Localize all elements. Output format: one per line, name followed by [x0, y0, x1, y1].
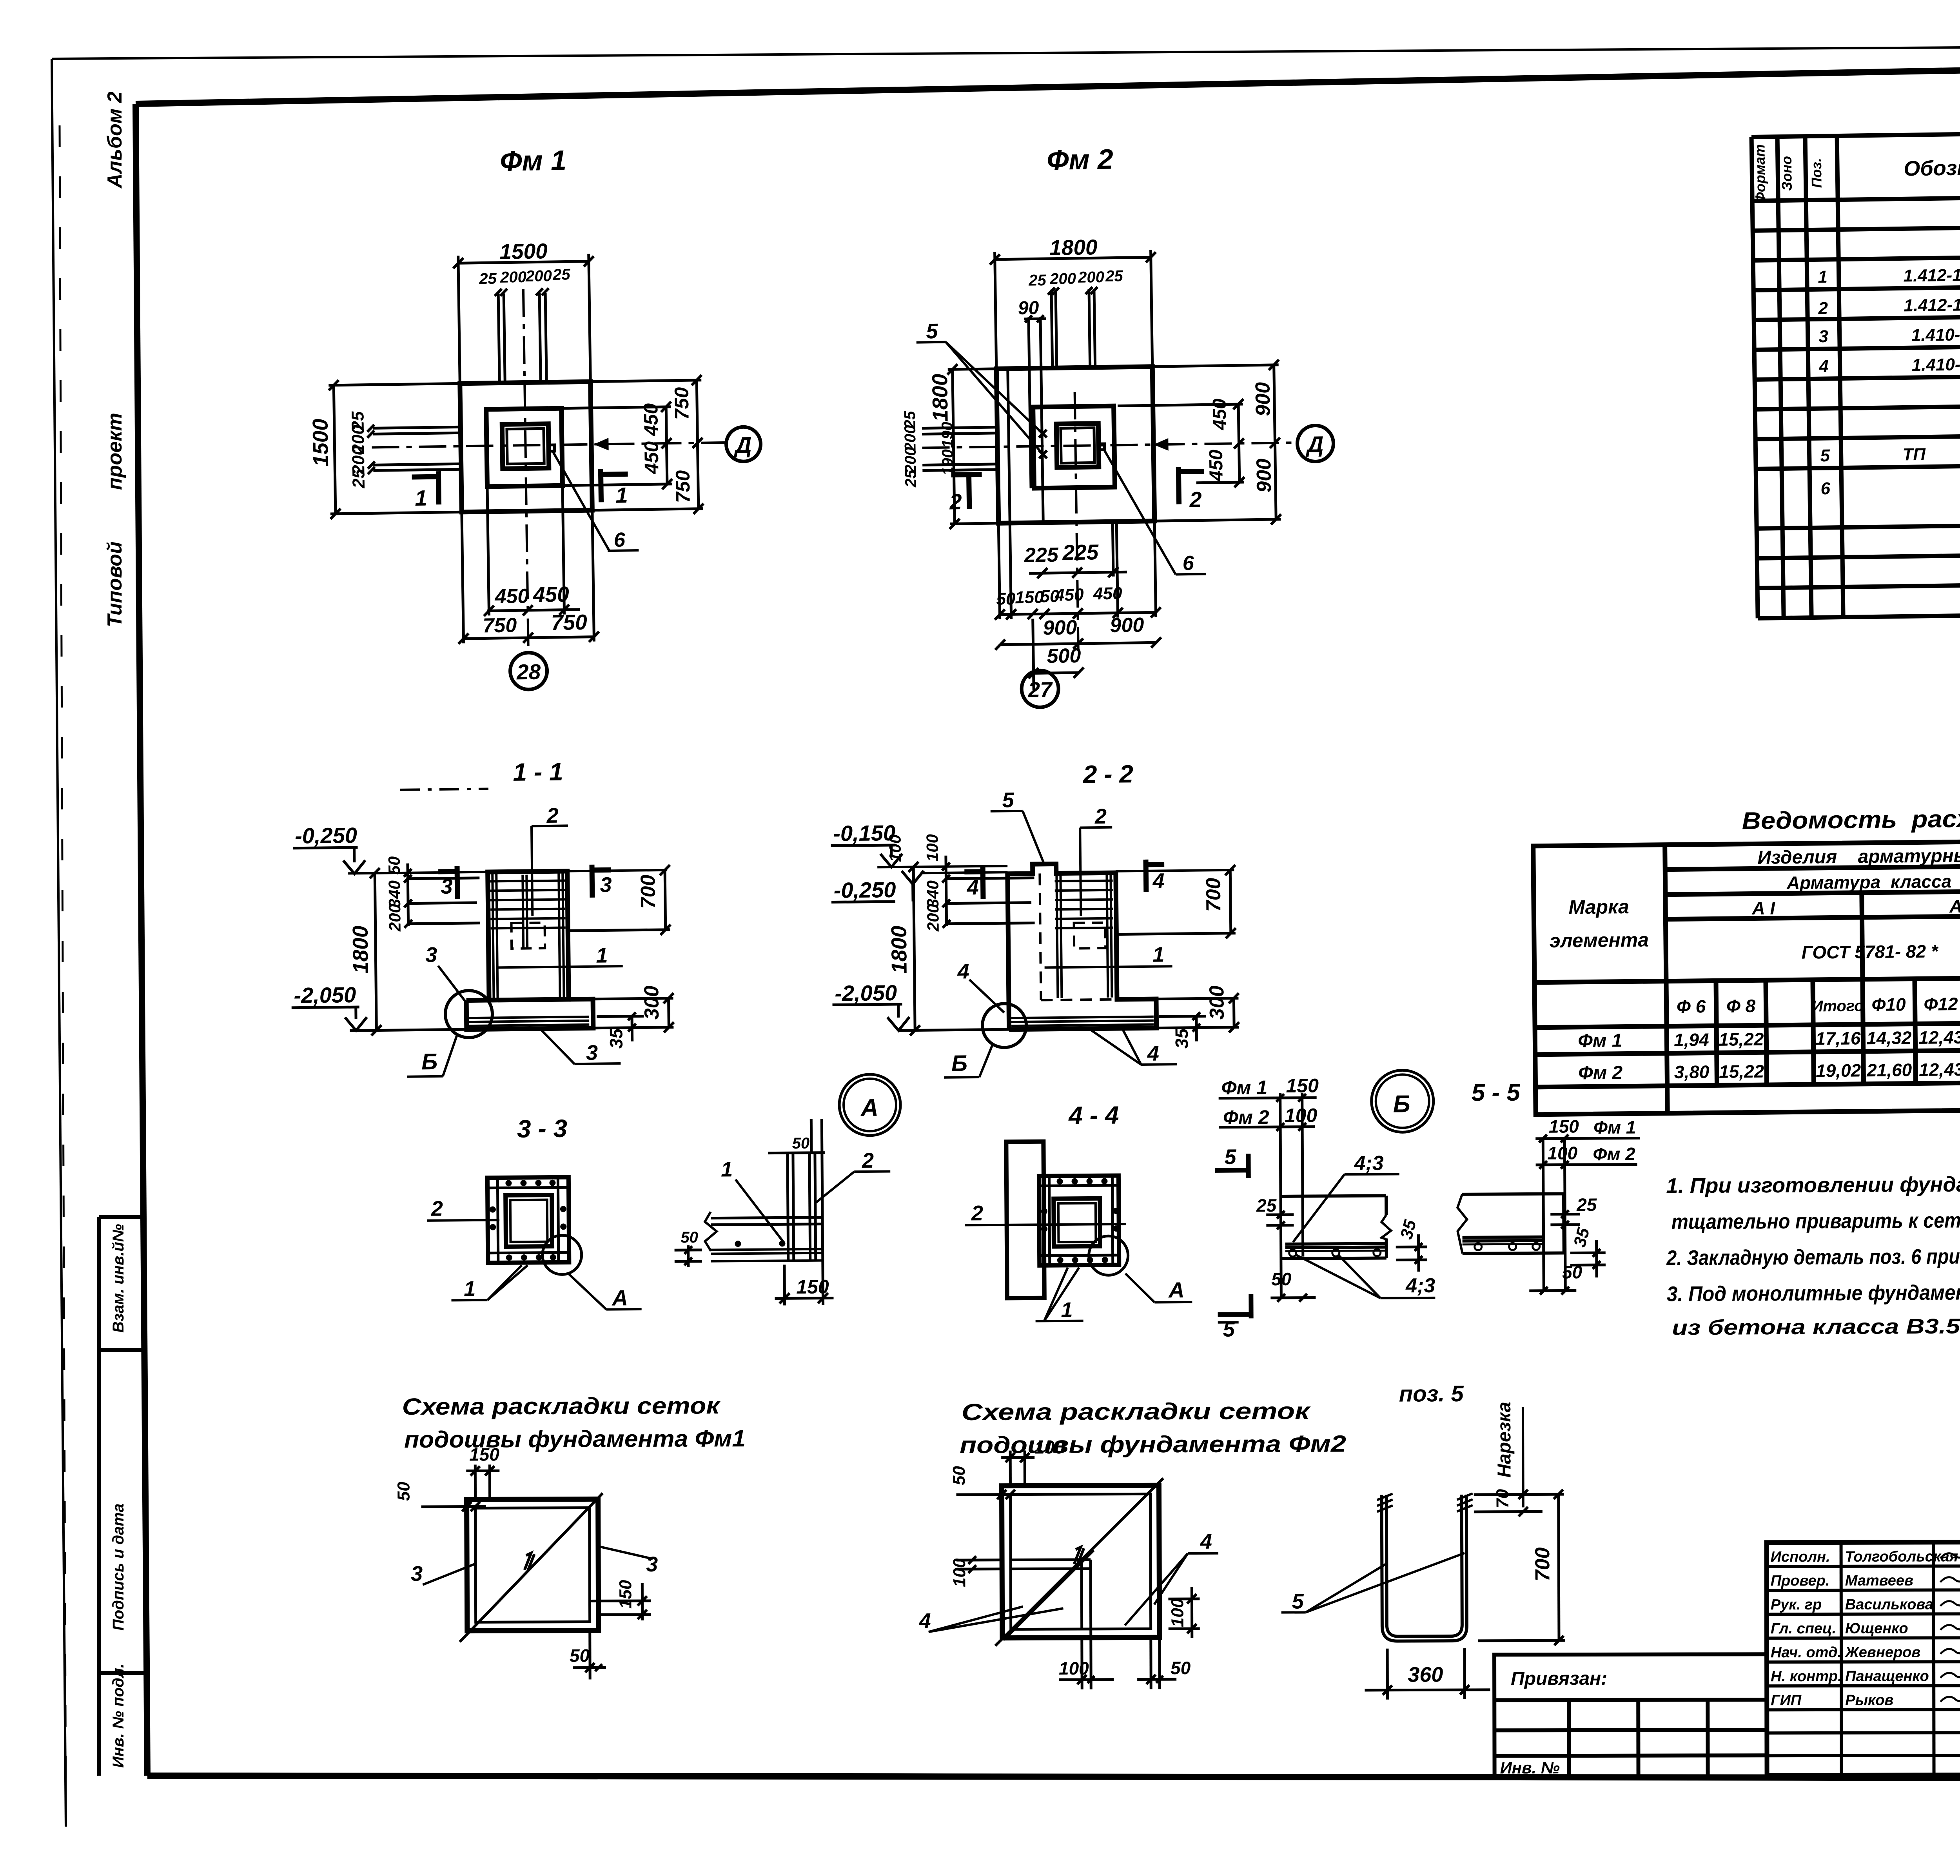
svg-text:Фм 1: Фм 1 [500, 145, 567, 177]
detail A (corner) [673, 1074, 902, 1306]
svg-text:1: 1 [596, 943, 608, 967]
svg-text:Типовой: Типовой [103, 541, 126, 627]
svg-text:6: 6 [1820, 479, 1831, 498]
vedomost title [1533, 800, 1960, 1115]
svg-text:750: 750 [670, 387, 693, 420]
svg-text:-0,250: -0,250 [833, 877, 896, 903]
specification table [1751, 127, 1960, 781]
svg-text:3: 3 [441, 875, 453, 898]
svg-text:4;3: 4;3 [1354, 1152, 1384, 1175]
svg-text:Взам. инв.й№: Взам. инв.й№ [110, 1224, 127, 1333]
notes text [1666, 1170, 1960, 1340]
svg-text:100: 100 [1547, 1143, 1577, 1163]
svg-text:А: А [1168, 1277, 1185, 1302]
svg-text:27: 27 [1027, 677, 1053, 702]
Fm1 plan view [304, 142, 764, 693]
svg-text:5 - 5: 5 - 5 [1471, 1079, 1521, 1107]
section 2-2 [830, 759, 1240, 1132]
svg-text:25: 25 [1028, 272, 1047, 289]
svg-text:Привязан:: Привязан: [1511, 1668, 1607, 1689]
schema Fm1 [394, 1392, 747, 1680]
svg-text:2 - 2: 2 - 2 [1083, 760, 1134, 788]
svg-text:Фм 1: Фм 1 [1593, 1117, 1636, 1138]
svg-text:225: 225 [1024, 544, 1059, 567]
svg-text:Панащенко: Панащенко [1845, 1668, 1929, 1684]
svg-text:1: 1 [415, 486, 427, 510]
svg-text:150: 150 [796, 1276, 829, 1298]
svg-text:150: 150 [1549, 1116, 1579, 1136]
svg-text:4: 4 [919, 1609, 931, 1633]
svg-text:50: 50 [681, 1229, 698, 1246]
svg-text:Б: Б [1393, 1090, 1410, 1118]
svg-text:100: 100 [1059, 1658, 1089, 1678]
svg-text:12,43: 12,43 [1918, 1027, 1960, 1048]
svg-text:1800: 1800 [927, 374, 953, 422]
svg-text:450: 450 [1209, 398, 1230, 430]
svg-text:Ф12: Ф12 [1924, 994, 1958, 1014]
svg-text:50: 50 [1171, 1658, 1191, 1678]
svg-text:100: 100 [950, 1558, 969, 1587]
svg-text:Инв. №: Инв. № [1500, 1758, 1560, 1777]
svg-text:из бетона класса В3.5: из бетона класса В3.5 [1672, 1315, 1960, 1340]
svg-text:28: 28 [516, 660, 541, 684]
title block [1494, 1512, 1960, 1809]
svg-text:900: 900 [1251, 382, 1274, 416]
poz.5 U-bar [1281, 1381, 1566, 1700]
svg-text:Фм 2: Фм 2 [1223, 1106, 1269, 1129]
svg-text:15,22: 15,22 [1719, 1029, 1764, 1050]
svg-text:Ф10: Ф10 [1871, 994, 1906, 1015]
svg-text:3: 3 [411, 1562, 423, 1586]
svg-text:1. При изготовлении фундаменто: 1. При изготовлении фундаментов простран… [1666, 1170, 1960, 1198]
svg-text:Василькова: Василькова [1845, 1596, 1933, 1613]
svg-text:1: 1 [721, 1158, 733, 1181]
svg-text:25: 25 [1256, 1195, 1277, 1216]
svg-text:1.412-1/77, вып.3: 1.412-1/77, вып.3 [1903, 265, 1960, 286]
svg-text:ГОСТ 5781- 82 *: ГОСТ 5781- 82 * [1802, 941, 1939, 962]
svg-text:1.410-2 вып.1: 1.410-2 вып.1 [1911, 354, 1960, 375]
svg-text:25: 25 [1576, 1194, 1597, 1215]
svg-text:2: 2 [949, 489, 962, 514]
svg-text:21,60: 21,60 [1866, 1060, 1912, 1080]
svg-text:3: 3 [1818, 327, 1828, 346]
svg-text:200: 200 [924, 904, 942, 932]
svg-text:35: 35 [1397, 1217, 1420, 1241]
svg-text:Обозначение: Обозначение [1904, 155, 1960, 181]
svg-text:200: 200 [500, 269, 526, 286]
svg-text:Фм 2: Фм 2 [1593, 1144, 1635, 1165]
svg-text:150: 150 [616, 1580, 635, 1609]
svg-text:6: 6 [613, 528, 626, 551]
svg-text:700: 700 [1202, 878, 1225, 912]
svg-text:Подпись и дата: Подпись и дата [110, 1504, 127, 1631]
svg-text:Зоно: Зоно [1779, 156, 1795, 191]
svg-text:300: 300 [1205, 985, 1229, 1020]
svg-text:2: 2 [1818, 299, 1828, 318]
svg-text:Ющенко: Ющенко [1845, 1620, 1908, 1637]
svg-text:4: 4 [1152, 869, 1165, 893]
svg-text:1,94: 1,94 [1674, 1029, 1709, 1050]
svg-text:190: 190 [939, 422, 956, 448]
svg-text:элемента: элемента [1550, 929, 1649, 952]
svg-text:50: 50 [385, 856, 403, 874]
svg-text:ТП: ТП [1902, 445, 1926, 464]
svg-text:4: 4 [1147, 1042, 1159, 1065]
svg-text:700: 700 [1531, 1547, 1554, 1581]
svg-text:4: 4 [1200, 1530, 1212, 1553]
svg-text:Инв. № подл.: Инв. № подл. [110, 1664, 127, 1768]
vedomost table [1533, 836, 1960, 1115]
svg-text:450: 450 [640, 441, 662, 474]
svg-text:А I: А I [1751, 898, 1775, 918]
svg-text:1800: 1800 [1049, 235, 1098, 260]
svg-text:25: 25 [1105, 267, 1123, 285]
svg-text:12,43: 12,43 [1919, 1059, 1960, 1080]
svg-text:Провер.: Провер. [1771, 1573, 1830, 1589]
svg-text:А Ш: А Ш [1949, 896, 1960, 916]
svg-text:2. Закладную деталь поз. 6 при: 2. Закладную деталь поз. 6 приварить к а… [1666, 1243, 1960, 1270]
schema Fm2 [918, 1398, 1347, 1690]
svg-text:Нач. отд.: Нач. отд. [1771, 1644, 1842, 1661]
section 3-3 drawing [426, 1177, 641, 1312]
svg-text:750: 750 [551, 610, 588, 635]
svg-text:Матвеев: Матвеев [1845, 1573, 1913, 1589]
svg-text:5: 5 [1292, 1589, 1304, 1613]
svg-text:1: 1 [1061, 1298, 1073, 1322]
svg-text:35: 35 [1570, 1226, 1593, 1249]
svg-text:200: 200 [385, 904, 404, 932]
svg-text:3. Под монолитные фундаменты Ф: 3. Под монолитные фундаменты Фм1, Фм2 вы… [1667, 1278, 1960, 1306]
svg-text:1500: 1500 [499, 239, 548, 264]
svg-text:Д: Д [733, 432, 752, 458]
svg-text:Фм 2: Фм 2 [1578, 1062, 1623, 1083]
svg-text:Поз.: Поз. [1808, 158, 1825, 188]
svg-text:500: 500 [1047, 644, 1081, 668]
svg-text:2: 2 [971, 1201, 983, 1225]
svg-text:3,80: 3,80 [1674, 1061, 1710, 1082]
svg-text:2: 2 [431, 1197, 443, 1221]
svg-text:Итого: Итого [1811, 997, 1864, 1015]
svg-text:Ведомость расхода стали на эл: Ведомость расхода стали на элемент, кг [1742, 802, 1960, 835]
svg-text:А: А [860, 1094, 878, 1121]
svg-text:50: 50 [570, 1645, 590, 1666]
svg-text:50: 50 [792, 1135, 810, 1152]
svg-text:Изделия арматурные: Изделия арматурные [1757, 845, 1960, 868]
section 4-4 drawing [965, 1141, 1192, 1323]
svg-text:подошвы фундамента Фм1: подошвы фундамента Фм1 [404, 1425, 746, 1453]
svg-text:1 - 1: 1 - 1 [513, 758, 563, 786]
svg-text:Нарезка: Нарезка [1494, 1402, 1515, 1478]
svg-text:3: 3 [586, 1041, 598, 1065]
svg-text:Жевнеров: Жевнеров [1844, 1644, 1920, 1661]
Fm2 plan view [898, 141, 1337, 709]
left bottom stamp cells [99, 1217, 145, 1776]
svg-text:-0,250: -0,250 [295, 823, 357, 848]
svg-text:Исполн.: Исполн. [1771, 1549, 1830, 1565]
svg-text:2: 2 [546, 804, 559, 827]
svg-text:200: 200 [1078, 269, 1104, 286]
svg-text:Н. контр.: Н. контр. [1771, 1668, 1842, 1685]
svg-text:Б: Б [951, 1050, 968, 1076]
svg-text:25: 25 [479, 270, 497, 288]
svg-text:340: 340 [924, 880, 942, 908]
svg-text:поз. 5: поз. 5 [1399, 1381, 1464, 1407]
svg-text:1800: 1800 [887, 925, 911, 974]
svg-text:1: 1 [615, 483, 628, 507]
svg-text:200: 200 [902, 447, 920, 474]
svg-text:450: 450 [1054, 585, 1084, 605]
detail 5-5 right (slab) [1457, 1116, 1641, 1295]
svg-text:1: 1 [1152, 943, 1165, 966]
svg-text:900: 900 [1043, 616, 1077, 639]
svg-text:Марка: Марка [1568, 896, 1629, 918]
svg-text:700: 700 [637, 874, 660, 909]
svg-text:4: 4 [1818, 357, 1829, 376]
svg-text:Схема раскладки сеток: Схема раскладки сеток [402, 1392, 721, 1420]
svg-text:14,32: 14,32 [1866, 1027, 1912, 1048]
svg-text:3: 3 [646, 1553, 658, 1576]
section 1-1 [289, 757, 675, 1145]
svg-text:Арматура класса: Арматура класса [1786, 871, 1952, 893]
svg-text:100: 100 [886, 835, 904, 862]
svg-text:35: 35 [1171, 1028, 1192, 1049]
svg-text:70: 70 [1493, 1489, 1512, 1508]
svg-text:90: 90 [1018, 298, 1039, 319]
svg-text:Фм 1: Фм 1 [1578, 1030, 1622, 1051]
svg-text:Рук. гр: Рук. гр [1771, 1597, 1822, 1613]
svg-text:2: 2 [1189, 487, 1202, 512]
svg-text:5: 5 [926, 319, 938, 343]
svg-text:750: 750 [483, 614, 517, 637]
svg-text:Альбом 2: Альбом 2 [103, 91, 126, 189]
svg-text:25: 25 [349, 469, 368, 489]
svg-text:проект: проект [103, 413, 126, 490]
svg-text:1.410-2 вып.1: 1.410-2 вып.1 [1911, 324, 1960, 345]
svg-text:3: 3 [600, 873, 612, 896]
svg-text:Д: Д [1305, 432, 1324, 457]
svg-text:5: 5 [1224, 1145, 1236, 1169]
svg-text:-2,050: -2,050 [294, 982, 356, 1008]
svg-text:1: 1 [1818, 267, 1828, 287]
svg-text:750: 750 [671, 470, 694, 503]
svg-text:Б: Б [421, 1049, 438, 1074]
svg-text:25: 25 [902, 470, 920, 488]
svg-text:Рыков: Рыков [1845, 1692, 1893, 1709]
svg-text:50: 50 [394, 1482, 413, 1501]
svg-text:подошвы фундамента Фм2: подошвы фундамента Фм2 [960, 1431, 1346, 1458]
svg-text:35: 35 [606, 1028, 626, 1049]
svg-text:4: 4 [957, 960, 969, 983]
svg-text:300: 300 [640, 985, 663, 1020]
svg-text:4 - 4: 4 - 4 [1068, 1101, 1119, 1130]
svg-text:-2,050: -2,050 [835, 980, 897, 1006]
svg-text:1800: 1800 [348, 925, 373, 974]
svg-text:4: 4 [966, 876, 979, 899]
svg-text:900: 900 [1110, 614, 1144, 637]
svg-text:100: 100 [1168, 1598, 1187, 1627]
svg-text:1.412-1/77, вып.3: 1.412-1/77, вып.3 [1904, 294, 1960, 316]
svg-text:50: 50 [949, 1466, 969, 1486]
svg-text:50: 50 [996, 589, 1016, 609]
svg-text:17,16: 17,16 [1815, 1028, 1861, 1049]
svg-text:15,22: 15,22 [1719, 1061, 1764, 1082]
svg-text:3 - 3: 3 - 3 [517, 1114, 568, 1143]
detail B left (for Fm1/Fm2) [1214, 1070, 1522, 1341]
svg-text:2: 2 [1094, 805, 1107, 828]
svg-text:200: 200 [1049, 270, 1076, 288]
svg-text:Схема раскладки сеток: Схема раскладки сеток [962, 1398, 1311, 1425]
svg-text:Фм 1: Фм 1 [1221, 1076, 1267, 1099]
svg-text:5: 5 [1820, 446, 1830, 465]
svg-text:50: 50 [1271, 1269, 1292, 1289]
svg-text:360: 360 [1408, 1663, 1443, 1686]
svg-text:450: 450 [1206, 449, 1227, 481]
svg-text:200: 200 [525, 267, 552, 285]
svg-text:100: 100 [1034, 1437, 1065, 1457]
svg-text:450: 450 [494, 585, 529, 608]
svg-text:1500: 1500 [308, 418, 333, 467]
svg-text:190: 190 [939, 449, 957, 475]
svg-text:ГИП: ГИП [1771, 1692, 1802, 1709]
svg-text:100: 100 [923, 834, 942, 862]
svg-text:Ф 8: Ф 8 [1726, 996, 1756, 1016]
svg-text:340: 340 [385, 880, 404, 908]
svg-text:25: 25 [552, 266, 571, 283]
svg-text:3: 3 [425, 943, 437, 967]
svg-text:450: 450 [1093, 584, 1123, 603]
svg-text:19,02: 19,02 [1816, 1060, 1861, 1081]
svg-text:Ф 6: Ф 6 [1677, 996, 1706, 1017]
svg-text:150: 150 [469, 1444, 499, 1464]
svg-text:450: 450 [533, 582, 570, 606]
svg-text:Гл. спец.: Гл. спец. [1771, 1620, 1836, 1637]
svg-text:900: 900 [1252, 458, 1276, 493]
svg-text:5: 5 [1002, 788, 1014, 812]
svg-text:Формат: Формат [1751, 144, 1768, 203]
svg-text:Фм 2: Фм 2 [1047, 144, 1114, 176]
svg-text:2: 2 [862, 1149, 874, 1172]
svg-text:50: 50 [1562, 1262, 1583, 1282]
svg-text:4;3: 4;3 [1405, 1274, 1436, 1297]
svg-text:1: 1 [464, 1277, 475, 1301]
svg-text:тщательно приварить к сеткам п: тщательно приварить к сеткам подошвы фун… [1671, 1206, 1960, 1234]
svg-text:225: 225 [1062, 540, 1099, 564]
svg-text:450: 450 [640, 403, 662, 436]
svg-text:А: А [611, 1285, 628, 1310]
svg-text:6: 6 [1182, 552, 1194, 575]
